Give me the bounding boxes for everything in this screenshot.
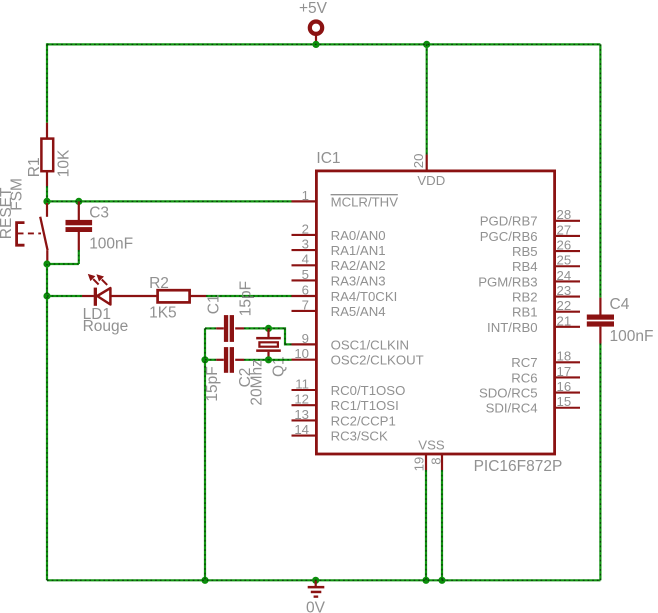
svg-text:MCLR/THV: MCLR/THV <box>331 194 399 209</box>
svg-text:INT/RB0: INT/RB0 <box>487 320 538 335</box>
svg-text:PGC/RB6: PGC/RB6 <box>480 229 538 244</box>
pin 27 PGC/RB6 <box>480 222 580 244</box>
wire OSC2 to pin 10 <box>269 359 292 361</box>
svg-text:RC6: RC6 <box>511 370 537 385</box>
svg-text:1K5: 1K5 <box>149 305 177 322</box>
pin 3 RA1/AN1 <box>292 237 386 259</box>
svg-text:RA3/AN3: RA3/AN3 <box>331 273 386 288</box>
wire reset net to MCLR <box>47 200 292 202</box>
wire left rail mid <box>46 264 48 296</box>
svg-text:VSS: VSS <box>418 437 445 452</box>
node OSC2 net <box>265 356 272 363</box>
svg-text:17: 17 <box>557 364 572 379</box>
svg-text:RB4: RB4 <box>512 259 538 274</box>
capacitor C1 15pF <box>205 281 269 342</box>
pin 6 RA4/T0CKI <box>292 282 398 304</box>
node switch bottom / C3 return <box>43 260 50 267</box>
wire osc ground rail <box>204 328 206 580</box>
node bottom osc rail <box>201 577 208 584</box>
svg-text:8: 8 <box>429 457 444 464</box>
svg-text:7: 7 <box>302 297 309 312</box>
resistor R2 1K5 <box>149 275 190 322</box>
wire right rail lower <box>599 344 601 581</box>
svg-text:+5V: +5V <box>299 0 328 17</box>
svg-text:VDD: VDD <box>417 173 445 188</box>
svg-text:10K: 10K <box>56 149 73 177</box>
pin 17 RC6 <box>511 364 580 386</box>
node LED net left <box>43 292 50 299</box>
svg-text:4: 4 <box>302 252 309 267</box>
svg-text:RA1/AN1: RA1/AN1 <box>331 243 386 258</box>
svg-text:15pF: 15pF <box>237 281 254 316</box>
+5V supply symbol <box>299 0 328 44</box>
pin 10 OSC2/CLKOUT <box>292 346 424 368</box>
svg-text:6: 6 <box>302 282 309 297</box>
svg-text:12: 12 <box>294 392 309 407</box>
node reset net left <box>43 198 50 205</box>
pin 26 RB5 <box>512 238 580 260</box>
svg-text:OSC1/CLKIN: OSC1/CLKIN <box>331 337 409 352</box>
wire right rail upper <box>599 44 601 314</box>
svg-text:22: 22 <box>557 298 572 313</box>
svg-text:C1: C1 <box>205 294 222 314</box>
crystal Q1 20Mhz <box>256 328 287 377</box>
pin 4 RA2/AN2 <box>292 252 386 274</box>
svg-text:RA4/T0CKI: RA4/T0CKI <box>331 289 398 304</box>
pin 21 INT/RB0 <box>487 313 580 335</box>
wire R1 to reset node <box>46 171 48 201</box>
svg-text:RA2/AN2: RA2/AN2 <box>331 258 386 273</box>
svg-text:9: 9 <box>302 331 309 346</box>
node left rail / C2 <box>201 356 208 363</box>
svg-text:18: 18 <box>557 349 572 364</box>
svg-text:27: 27 <box>557 222 572 237</box>
svg-text:26: 26 <box>557 238 572 253</box>
pin 5 RA3/AN3 <box>292 267 386 289</box>
svg-text:100nF: 100nF <box>89 236 133 253</box>
svg-text:15: 15 <box>557 394 572 409</box>
wire +5V top rail <box>47 43 600 45</box>
svg-text:20Mhz: 20Mhz <box>248 359 265 406</box>
svg-text:SDO/RC5: SDO/RC5 <box>479 386 538 401</box>
node C3 tap <box>75 198 82 205</box>
svg-text:21: 21 <box>557 313 572 328</box>
svg-text:16: 16 <box>557 379 572 394</box>
resistor R1 <box>26 139 73 178</box>
svg-text:3: 3 <box>302 237 309 252</box>
svg-text:RC7: RC7 <box>511 355 537 370</box>
svg-text:R2: R2 <box>149 275 169 292</box>
svg-text:25: 25 <box>557 253 572 268</box>
svg-text:20: 20 <box>411 154 426 169</box>
svg-text:11: 11 <box>295 376 309 391</box>
svg-text:RC0/T1OSO: RC0/T1OSO <box>331 383 406 398</box>
pin 15 SDI/RC4 <box>486 394 580 416</box>
LED LD1 Rouge <box>82 274 158 335</box>
wire LED net from rail <box>47 295 82 297</box>
svg-text:RB1: RB1 <box>512 305 538 320</box>
pin 11 RC0/T1OSO <box>292 376 406 398</box>
svg-text:2: 2 <box>302 221 309 236</box>
node bottom pin19 <box>422 577 429 584</box>
pin 9 OSC1/CLKIN <box>292 331 410 353</box>
wire R2 to RA4 pin <box>190 295 292 297</box>
svg-text:RC2/CCP1: RC2/CCP1 <box>331 413 396 428</box>
svg-text:PGM/RB3: PGM/RB3 <box>478 274 537 289</box>
svg-text:RC1/T1OSI: RC1/T1OSI <box>331 398 399 413</box>
capacitor C4 100nF <box>587 296 654 345</box>
svg-text:RB5: RB5 <box>512 244 538 259</box>
pin 13 RC2/CCP1 <box>292 407 396 429</box>
pin 18 RC7 <box>511 349 580 371</box>
svg-text:19: 19 <box>412 457 427 472</box>
node bottom pin8 <box>438 577 445 584</box>
op-amp U1 IC1 PIC16F872P body <box>316 150 562 475</box>
svg-text:C4: C4 <box>610 296 630 313</box>
node OSC1 net <box>265 325 272 332</box>
pin 28 PGD/RB7 <box>480 207 580 229</box>
svg-text:RC3/SCK: RC3/SCK <box>331 429 388 444</box>
svg-text:PIC16F872P: PIC16F872P <box>474 458 563 475</box>
pin 24 PGM/RB3 <box>478 268 580 290</box>
svg-text:15pF: 15pF <box>204 366 221 401</box>
pin 2 RA0/AN0 <box>292 221 386 243</box>
wire 0V bottom rail <box>47 579 600 581</box>
switch S1 RESET FSM <box>0 178 48 264</box>
svg-text:SDI/RC4: SDI/RC4 <box>486 401 538 416</box>
svg-text:0V: 0V <box>306 599 326 613</box>
node top rail / +5V <box>312 41 319 48</box>
svg-text:RB2: RB2 <box>512 289 538 304</box>
svg-text:OSC2/CLKOUT: OSC2/CLKOUT <box>331 353 424 368</box>
pin 19 VSS <box>412 454 427 580</box>
svg-text:RA5/AN4: RA5/AN4 <box>331 304 386 319</box>
pin 20 VDD <box>411 44 445 188</box>
pin 8 VSS <box>418 437 445 580</box>
pin 16 SDO/RC5 <box>479 379 580 401</box>
pin 1 MCLR/THV <box>292 188 399 210</box>
node top rail / VDD branch <box>423 41 430 48</box>
wire left rail upper <box>46 43 48 139</box>
wire OSC1 jog to pin 9 <box>269 328 292 344</box>
svg-text:PGD/RB7: PGD/RB7 <box>480 214 538 229</box>
svg-text:1: 1 <box>302 188 309 203</box>
svg-text:RA0/AN0: RA0/AN0 <box>331 228 386 243</box>
pin 14 RC3/SCK <box>292 422 388 444</box>
svg-text:13: 13 <box>294 407 309 422</box>
svg-text:24: 24 <box>557 268 572 283</box>
svg-text:C3: C3 <box>89 205 109 222</box>
node bottom ground <box>312 577 319 584</box>
pin 7 RA5/AN4 <box>292 297 386 319</box>
ground 0V symbol <box>306 580 326 613</box>
svg-text:5: 5 <box>302 267 309 282</box>
svg-text:10: 10 <box>294 346 309 361</box>
svg-text:100nF: 100nF <box>610 328 654 345</box>
pin 12 RC1/T1OSI <box>292 392 399 414</box>
pin 22 RB1 <box>512 298 580 320</box>
capacitor C3 100nF <box>47 201 133 264</box>
svg-text:FSM: FSM <box>8 178 25 211</box>
wire <box>47 44 600 580</box>
svg-text:14: 14 <box>294 422 309 437</box>
svg-text:28: 28 <box>557 207 572 222</box>
svg-text:23: 23 <box>557 283 572 298</box>
svg-text:R1: R1 <box>26 157 43 177</box>
svg-text:Rouge: Rouge <box>83 318 129 335</box>
pin 23 RB2 <box>512 283 580 305</box>
svg-text:IC1: IC1 <box>316 150 340 167</box>
pin 25 RB4 <box>512 253 580 275</box>
wire left rail lower <box>46 296 48 580</box>
capacitor C2 15pF <box>204 347 269 406</box>
